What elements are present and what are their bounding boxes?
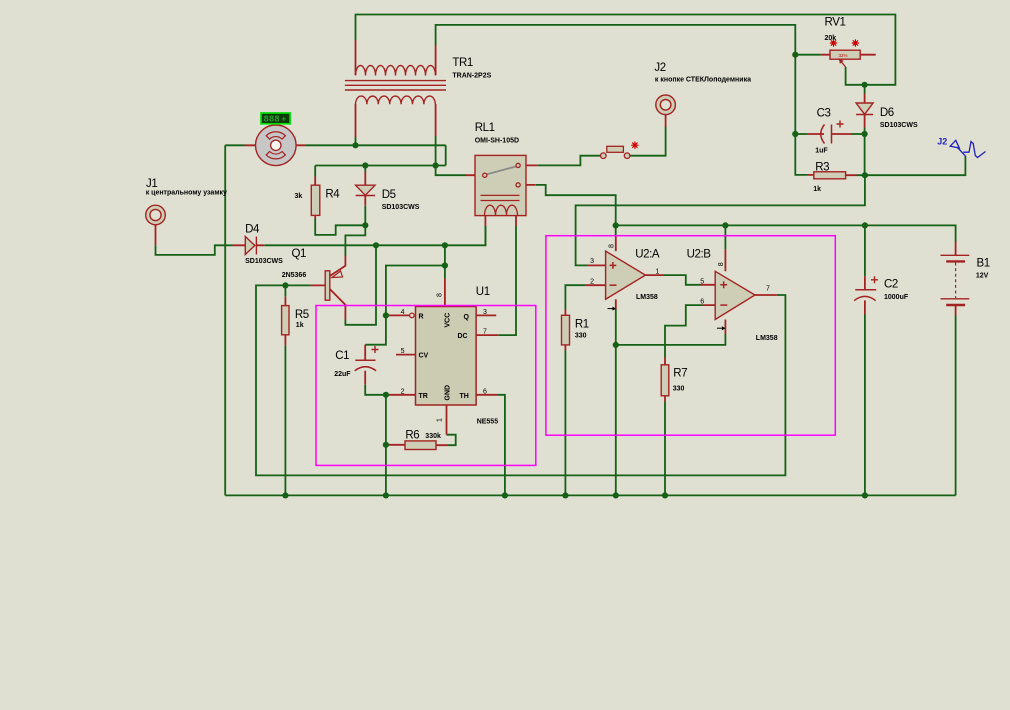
svg-text:1uF: 1uF <box>815 147 828 154</box>
svg-text:330: 330 <box>575 333 587 340</box>
svg-text:2: 2 <box>590 279 594 286</box>
svg-text:R7: R7 <box>673 368 687 380</box>
svg-text:20k: 20k <box>825 35 837 42</box>
svg-text:C1: C1 <box>335 350 349 362</box>
svg-text:SD103CWS: SD103CWS <box>245 258 283 265</box>
svg-text:GND: GND <box>445 385 452 401</box>
svg-text:D6: D6 <box>880 107 894 119</box>
svg-text:7: 7 <box>483 329 487 336</box>
svg-text:RV1: RV1 <box>825 17 846 29</box>
svg-text:R3: R3 <box>815 162 829 174</box>
svg-text:TRAN-2P2S: TRAN-2P2S <box>452 73 491 80</box>
svg-text:к кнопке СТЕКЛоподемника: к кнопке СТЕКЛоподемника <box>655 77 751 84</box>
svg-text:7: 7 <box>766 286 770 293</box>
svg-text:1000uF: 1000uF <box>884 294 909 301</box>
svg-text:C3: C3 <box>817 108 831 120</box>
svg-text:8: 8 <box>718 262 725 266</box>
svg-text:1: 1 <box>437 418 444 422</box>
svg-text:12V: 12V <box>976 273 989 280</box>
svg-text:J1: J1 <box>146 178 157 190</box>
svg-text:U2:A: U2:A <box>635 249 660 261</box>
svg-text:5: 5 <box>700 278 704 285</box>
svg-text:3k: 3k <box>295 193 303 200</box>
svg-text:Q1: Q1 <box>292 248 307 260</box>
svg-text:22uF: 22uF <box>334 371 351 378</box>
svg-text:D5: D5 <box>382 189 396 201</box>
svg-text:TR1: TR1 <box>452 57 473 69</box>
svg-text:Q: Q <box>464 314 470 321</box>
svg-text:R: R <box>419 313 424 320</box>
svg-text:1: 1 <box>656 269 660 276</box>
svg-text:TH: TH <box>460 393 469 400</box>
svg-text:SD103CWS: SD103CWS <box>382 204 420 211</box>
svg-text:R4: R4 <box>325 189 340 201</box>
svg-text:U1: U1 <box>476 286 490 298</box>
svg-text:LM358: LM358 <box>636 294 658 301</box>
svg-text:1k: 1k <box>813 186 821 193</box>
svg-text:R5: R5 <box>295 309 309 321</box>
svg-text:3: 3 <box>590 258 594 265</box>
svg-text:D4: D4 <box>245 223 260 235</box>
svg-text:32%: 32% <box>839 53 848 58</box>
svg-text:R6: R6 <box>405 429 419 441</box>
svg-text:OMI-SH-105D: OMI-SH-105D <box>475 137 519 144</box>
svg-text:J2: J2 <box>654 62 665 74</box>
svg-text:U2:B: U2:B <box>687 249 712 261</box>
svg-text:RL1: RL1 <box>475 122 495 134</box>
svg-text:R1: R1 <box>575 319 589 331</box>
svg-text:B1: B1 <box>977 258 990 270</box>
svg-text:к центральному узамку: к центральному узамку <box>146 190 227 197</box>
svg-text:VCC: VCC <box>445 313 452 328</box>
svg-text:888: 888 <box>264 115 280 125</box>
svg-text:LM358: LM358 <box>756 335 778 342</box>
svg-text:8: 8 <box>609 244 616 248</box>
svg-text:4: 4 <box>401 309 405 316</box>
svg-text:NE555: NE555 <box>477 419 499 426</box>
svg-text:3: 3 <box>483 309 487 316</box>
svg-text:8: 8 <box>437 293 444 297</box>
svg-text:330: 330 <box>673 386 685 393</box>
svg-text:TR: TR <box>419 393 428 400</box>
svg-text:2N5366: 2N5366 <box>282 272 307 279</box>
svg-text:SD103CWS: SD103CWS <box>880 122 918 129</box>
svg-text:6: 6 <box>700 298 704 305</box>
svg-text:C2: C2 <box>884 279 898 291</box>
svg-text:CV: CV <box>419 353 429 360</box>
svg-text:2: 2 <box>401 388 405 395</box>
svg-text:+: + <box>282 114 287 123</box>
svg-text:5: 5 <box>401 348 405 355</box>
svg-text:DC: DC <box>458 333 468 340</box>
svg-text:1k: 1k <box>296 322 304 329</box>
svg-text:J2: J2 <box>937 136 947 146</box>
svg-text:330k: 330k <box>425 433 441 440</box>
svg-text:6: 6 <box>483 388 487 395</box>
